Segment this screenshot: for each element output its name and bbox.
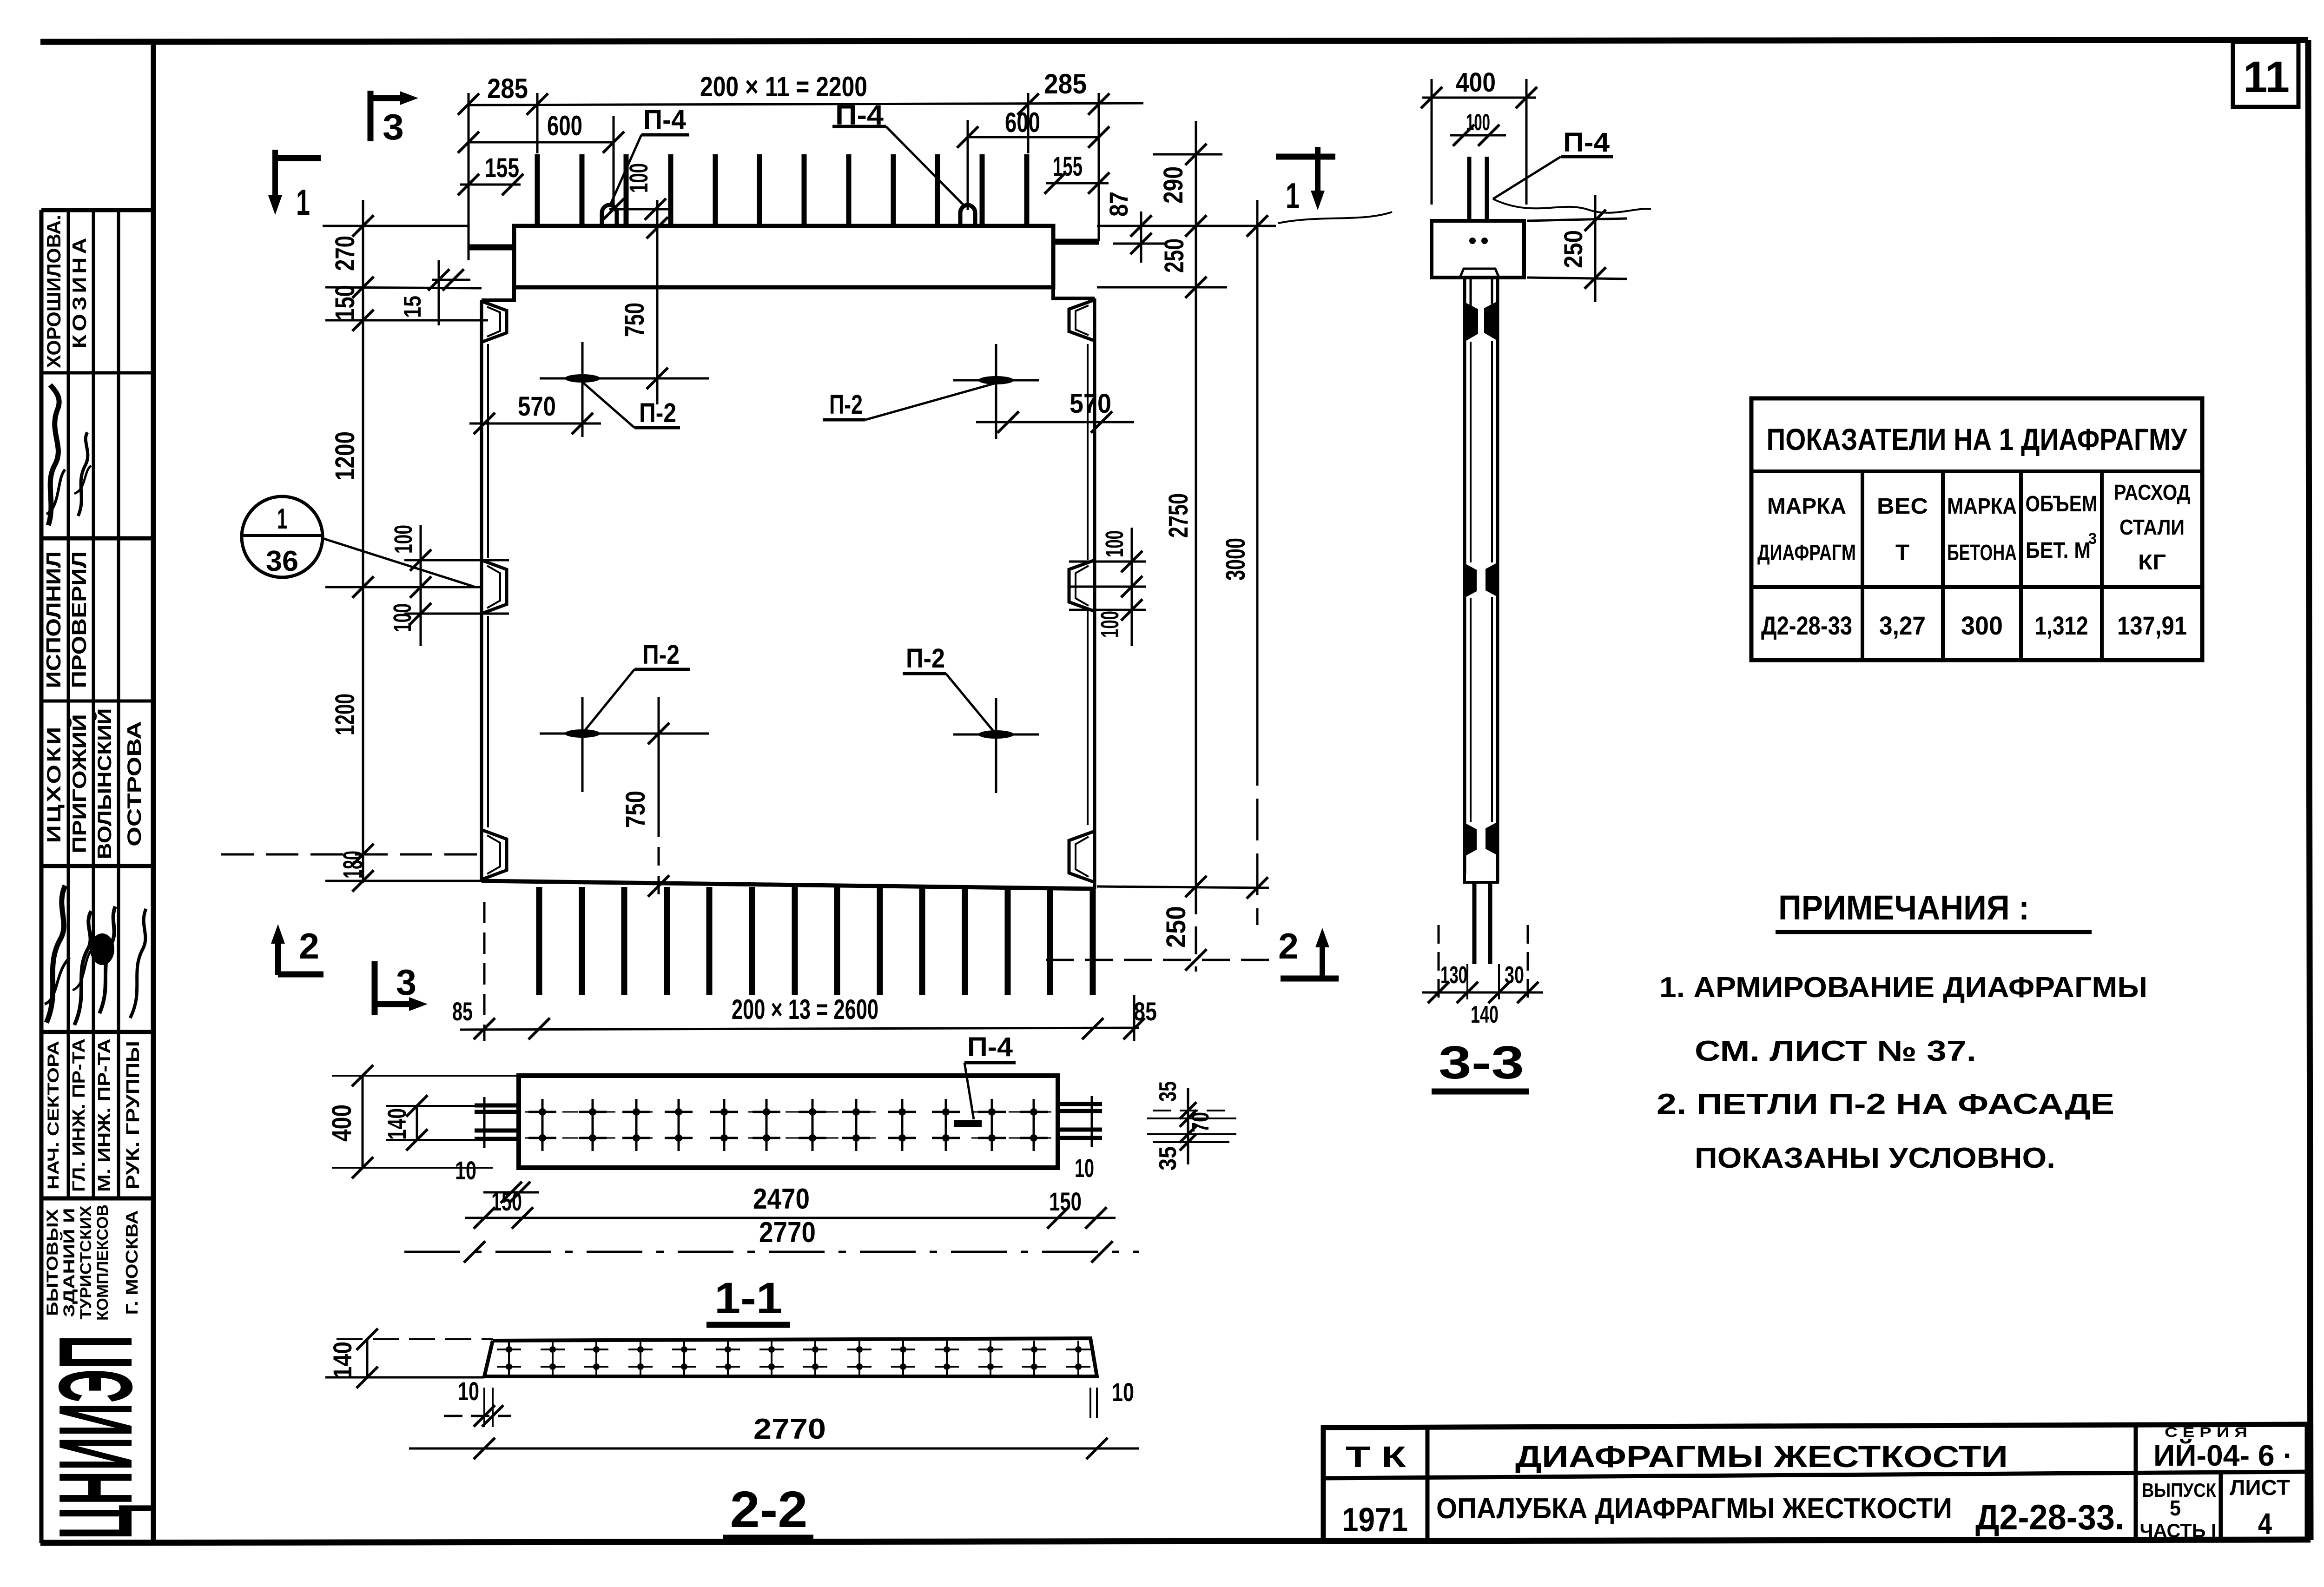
dim line top overall 285+2200+285 [469,103,1143,105]
sidebar column line 1 [67,210,70,1198]
section 1-1 body [519,1076,1058,1168]
svg-text:285: 285 [487,73,528,104]
svg-text:35: 35 [1155,1146,1182,1170]
svg-text:100: 100 [1096,611,1124,638]
svg-text:10: 10 [455,1156,476,1185]
section mark 2 right [1281,976,1339,982]
sidebar column line 2 [92,210,95,1198]
svg-text:МАРКА: МАРКА [1947,494,2017,519]
svg-text:РУК. ГРУППЫ: РУК. ГРУППЫ [123,1041,143,1190]
svg-text:570: 570 [1070,389,1111,419]
svg-text:ПРИГОЖИЙ: ПРИГОЖИЙ [68,714,90,853]
svg-text:1. АРМИРОВАНИЕ ДИАФРАГМЫ: 1. АРМИРОВАНИЕ ДИАФРАГМЫ [1659,972,2147,1004]
extension right ledge end [1098,93,1100,241]
section 2-2 body [484,1338,1097,1376]
title block col line 1 [1426,1428,1430,1542]
svg-text:ОПАЛУБКА ДИАФРАГМЫ ЖЕСТКОСТИ: ОПАЛУБКА ДИАФРАГМЫ ЖЕСТКОСТИ [1436,1493,1952,1525]
svg-text:КОЗИНА: КОЗИНА [68,235,90,349]
svg-text:3: 3 [2088,530,2097,548]
svg-text:570: 570 [518,391,556,422]
section mark 3 bottom [372,961,378,1015]
svg-text:РАСХОД: РАСХОД [2114,480,2191,504]
svg-text:КОМПЛЕКСОВ: КОМПЛЕКСОВ [94,1204,112,1321]
panel right edge wall [1093,298,1096,889]
lifting loop P-4 left [602,205,617,226]
svg-text:2750: 2750 [1163,493,1194,538]
extension line left x=1008 [468,93,470,260]
svg-text:1,312: 1,312 [2035,611,2088,640]
svg-text:Т К: Т К [1346,1440,1406,1474]
sidebar row line y=802 [41,371,153,375]
svg-text:1: 1 [296,182,310,223]
top beam outline [514,226,1053,287]
extension beam bottom level right [1097,286,1227,289]
dim 400 section 3-3 [1422,97,1536,99]
svg-text:150: 150 [330,285,360,320]
svg-text:ГЛ. ИНЖ. ПР-ТА: ГЛ. ИНЖ. ПР-ТА [69,1038,89,1192]
svg-text:ЦНИИЭП: ЦНИИЭП [37,1335,154,1540]
svg-text:П-4: П-4 [1563,127,1610,158]
beam right ledge [1053,239,1099,245]
section 3-3 wall [1463,278,1466,874]
svg-text:ДИАФРАГМ: ДИАФРАГМ [1757,541,1856,565]
svg-text:250: 250 [1161,906,1191,948]
svg-text:Д2-28-33.: Д2-28-33. [1975,1498,2124,1537]
dims 100 at right middle notch [1069,561,1146,563]
beam left ledge [469,245,514,251]
dims 130/30/140 section 3-3 [1438,925,1440,999]
svg-text:150: 150 [491,1187,522,1216]
panel left edge wall [480,300,483,881]
svg-text:П-2: П-2 [642,640,680,670]
svg-text:ИСПОЛНИЛ: ИСПОЛНИЛ [42,551,65,688]
section 3-3 wall notches bottom [1465,823,1477,856]
svg-text:5: 5 [2170,1496,2181,1520]
extension loop right vertical [967,120,969,210]
svg-text:2. ПЕТЛИ П-2 НА ФАСАДЕ: 2. ПЕТЛИ П-2 НА ФАСАДЕ [1657,1088,2114,1120]
svg-text:140: 140 [382,1108,411,1140]
panel right notch top [1069,300,1095,341]
svg-text:ОСТРОВА: ОСТРОВА [123,721,145,846]
svg-text:ПРОВЕРИЛ: ПРОВЕРИЛ [68,551,91,688]
sidebar signature blob [90,933,114,965]
dim 600 right [968,136,1099,139]
dim 200x13=2600 bottom [460,1028,1139,1030]
svg-text:П-4: П-4 [967,1032,1013,1062]
extension beam bottom level left [325,287,482,288]
dim 2770 section 1-1 [404,1251,1139,1253]
left dim chain vertical [362,200,364,883]
sidebar column line 3 [117,210,120,1198]
svg-text:36: 36 [266,545,298,577]
svg-text:НАЧ. СЕКТОРА: НАЧ. СЕКТОРА [45,1041,62,1190]
svg-text:ВЕС: ВЕС [1877,494,1928,519]
sidebar signature col4 row2 [130,909,146,1018]
drawing frame left line [151,41,156,1542]
svg-text:3: 3 [396,962,416,1003]
svg-text:1: 1 [277,503,287,535]
extension last spike [1027,93,1030,153]
svg-text:137,91: 137,91 [2117,611,2187,640]
table header row line [1751,585,2202,589]
svg-text:35: 35 [1155,1081,1182,1102]
section 1-1 right rebar stubs [1058,1102,1102,1106]
svg-text:2-2: 2-2 [730,1481,808,1538]
svg-text:140: 140 [328,1342,357,1379]
P-2 loop mark upper left [540,377,709,380]
section 3-3 block bottom notch [1460,269,1499,278]
dim 100 top (loop to axis) [609,208,671,211]
sidebar row line y=1508 [41,700,153,703]
svg-text:400: 400 [327,1104,357,1142]
svg-text:3: 3 [383,106,404,147]
svg-text:400: 400 [1456,67,1496,98]
section 3-3 bottom rebars [1472,882,1477,964]
svg-text:100: 100 [1466,109,1490,135]
extension beam top level right [1097,225,1276,227]
section mark 3 top [368,91,374,141]
extension first spike [536,93,539,153]
dim 155 left [460,184,521,186]
svg-text:270: 270 [330,236,360,271]
dim 750 upper [656,200,659,404]
dim 570 left [469,423,601,425]
svg-text:750: 750 [620,303,650,337]
dims 2470/150 section 1-1 [465,1217,1116,1219]
table header band line [1751,469,2202,473]
svg-text:100: 100 [624,163,653,193]
panel left notch top [482,301,507,342]
extension spikes bottom right [1046,959,1269,961]
dim 400 section 1-1 [362,1076,364,1168]
svg-text:87: 87 [1104,192,1133,217]
svg-text:ПОКАЗАНЫ УСЛОВНО.: ПОКАЗАНЫ УСЛОВНО. [1695,1142,2055,1174]
svg-text:10: 10 [1112,1377,1134,1407]
svg-text:130: 130 [1440,962,1467,989]
title block col line 2 [2134,1425,2138,1540]
dim 100 section 3-3 [1450,134,1506,137]
table column lines [1861,471,1864,660]
dim 140 section 1-1 [416,1106,418,1140]
svg-text:ЧАСТЬ I: ЧАСТЬ I [2140,1520,2217,1541]
svg-text:Д2-28-33: Д2-28-33 [1761,611,1852,640]
svg-text:10: 10 [458,1376,479,1406]
svg-text:С Е Р И Я: С Е Р И Я [2165,1425,2247,1440]
dim 87 [1140,212,1142,263]
svg-text:250: 250 [1558,230,1588,268]
page border bottom [40,1540,2311,1543]
svg-text:750: 750 [621,791,651,828]
dim 750 lower [658,697,660,818]
svg-text:П-4: П-4 [643,104,687,135]
svg-text:1: 1 [1286,175,1300,216]
svg-text:150: 150 [1049,1187,1082,1216]
svg-text:140: 140 [1471,1001,1499,1028]
dims 100 at left middle notch [404,559,509,562]
extension beam top level left [323,225,469,227]
extension panel left corner down [483,902,486,1041]
svg-text:2770: 2770 [759,1217,816,1249]
dim 3000 vertical [1256,200,1259,744]
page border top [40,40,2308,42]
svg-text:БЕТ. М: БЕТ. М [2026,538,2091,563]
svg-text:155: 155 [485,153,519,183]
section 3-3 wall notches top [1465,302,1478,342]
section mark 1 right [1276,154,1335,160]
svg-text:ВОЛЫНСКИЙ: ВОЛЫНСКИЙ [93,708,115,860]
section 1-1 row dash lines [525,1111,1051,1113]
svg-text:П-2: П-2 [906,643,945,674]
extension notch2 center left [325,586,482,589]
extension panel bottom right [1097,886,1269,888]
sheet number box 11 [2233,42,2298,107]
svg-text:М. ИНЖ. ПР-ТА: М. ИНЖ. ПР-ТА [95,1038,114,1192]
svg-text:ЗДАНИЙ И: ЗДАНИЙ И [60,1208,78,1317]
svg-text:ИЙ-04- 6 ·: ИЙ-04- 6 · [2153,1438,2293,1472]
svg-text:ПОКАЗАТЕЛИ НА 1 ДИАФРАГМУ: ПОКАЗАТЕЛИ НА 1 ДИАФРАГМУ [1767,422,2188,456]
svg-text:70: 70 [1187,1112,1214,1132]
extension spike top level right [1153,153,1222,156]
panel left notch middle [482,560,507,614]
section 3-3 wall notches middle [1465,563,1477,598]
sidebar top edge [41,208,153,212]
svg-text:ЛИСТ: ЛИСТ [2230,1475,2290,1500]
sidebar row line y=2220 [41,1030,153,1034]
title block outer [1323,1424,2307,1542]
svg-text:1200: 1200 [330,431,360,481]
sidebar row line y=1158 [41,536,153,541]
svg-text:КГ: КГ [2138,550,2166,574]
dim 140 section 2-2 [366,1339,369,1377]
dim 250 section 3-3 [1527,218,1627,221]
sidebar signature row1 [48,385,59,525]
panel top-left corner step [482,287,514,300]
svg-text:2470: 2470 [753,1183,810,1215]
dim chain 290/250/2750/250 vertical [1195,121,1197,886]
svg-text:600: 600 [547,110,582,141]
svg-text:300: 300 [1961,611,2003,640]
table Показатели outer [1751,398,2202,660]
section 1-1 cross marks [541,1099,544,1125]
P-2 loop mark lower right [953,734,1039,736]
svg-text:15: 15 [399,296,426,318]
svg-text:ХОРОШИЛОВА.: ХОРОШИЛОВА. [43,215,65,368]
section mark 2 bottom-left [275,944,281,975]
svg-text:ПРИМЕЧАНИЯ :: ПРИМЕЧАНИЯ : [1778,888,2029,927]
dim 2770 section 2-2 [409,1448,1139,1450]
svg-text:ИЦХОКИ: ИЦХОКИ [43,725,65,843]
svg-text:Г. МОСКВА: Г. МОСКВА [122,1210,141,1315]
section 3-3 top rebars [1467,157,1472,221]
svg-text:БЕТОНА: БЕТОНА [1947,541,2017,565]
svg-text:3-3: 3-3 [1439,1037,1524,1089]
svg-text:285: 285 [1044,68,1087,99]
svg-text:СМ. ЛИСТ № 37.: СМ. ЛИСТ № 37. [1695,1035,1976,1067]
section 2-2 cross marks [508,1341,510,1360]
dim 570 right [976,421,1134,423]
extension notch1 center left [325,319,488,322]
dims 35/70/35 right of section 1-1 [1153,1110,1229,1111]
detail mark circle 1/36 [242,496,323,577]
sidebar signature row2 [46,886,65,1023]
svg-text:1200: 1200 [330,694,360,735]
svg-text:П-2: П-2 [829,390,863,420]
svg-text:ДИАФРАГМЫ ЖЕСТКОСТИ: ДИАФРАГМЫ ЖЕСТКОСТИ [1515,1439,2008,1474]
svg-text:2: 2 [299,926,319,966]
svg-text:1-1: 1-1 [714,1274,782,1323]
svg-text:100: 100 [1101,530,1129,557]
svg-text:30: 30 [1505,962,1524,989]
dim 15 small [432,279,470,281]
svg-text:МАРКА: МАРКА [1767,494,1846,519]
section 1-1 left rebar stubs [475,1104,519,1108]
panel left notch bottom [482,830,507,879]
panel top-right corner step [1053,287,1095,298]
extension loop left vertical [613,116,615,209]
panel right notch middle [1069,560,1095,611]
svg-text:100: 100 [389,603,416,632]
extension bottom edge left [325,880,482,882]
svg-text:ТУРИСТСКИХ: ТУРИСТСКИХ [77,1205,95,1319]
sidebar outer left edge [40,210,44,1543]
svg-text:4: 4 [2258,1507,2272,1541]
section mark 1 top-left [272,150,278,195]
svg-text:11: 11 [2243,53,2290,102]
svg-text:155: 155 [1053,152,1083,182]
P-2 loop mark upper right [953,379,1039,382]
panel bottom edge [482,881,1095,889]
svg-text:СТАЛИ: СТАЛИ [2119,515,2185,539]
title block col line 3 [2219,1472,2223,1540]
extension notch3 center left [221,853,482,856]
bottom rebar spikes [536,887,542,995]
svg-text:Т: Т [1895,541,1909,565]
section 3-3 top block [1432,221,1524,278]
top rebar spikes [535,154,540,226]
section 3-3 bottom cap [1465,855,1498,882]
svg-text:200 × 11 = 2200: 200 × 11 = 2200 [700,71,867,102]
svg-text:85: 85 [452,997,473,1026]
dim 155 right [1046,182,1109,185]
sidebar row line y=1863 [41,864,153,868]
svg-text:ОБЪЕМ: ОБЪЕМ [2026,492,2098,516]
sidebar row line y=2578 [41,1197,153,1201]
svg-text:2: 2 [1278,926,1299,966]
dim 600 left [469,141,614,144]
svg-text:3,27: 3,27 [1879,611,1926,640]
svg-text:10: 10 [1075,1153,1094,1183]
page border right [2308,40,2311,1540]
svg-text:3000: 3000 [1221,538,1251,581]
panel right notch bottom [1069,831,1095,882]
svg-text:85: 85 [1134,997,1157,1026]
title block row divider [1323,1472,2307,1478]
svg-text:1971: 1971 [1342,1501,1408,1539]
svg-text:600: 600 [1005,107,1040,138]
svg-text:250: 250 [1159,238,1189,273]
extension right 85 [1133,995,1136,1041]
extension ledge level right 87 [1113,243,1167,245]
P-2 loop mark lower left [540,733,709,735]
svg-text:100: 100 [390,525,417,554]
svg-text:БЫТОВЫХ: БЫТОВЫХ [44,1209,61,1316]
lifting loop P-4 right [960,205,975,226]
svg-text:2770: 2770 [753,1413,826,1445]
svg-text:200 × 13 = 2600: 200 × 13 = 2600 [732,994,878,1025]
svg-text:290: 290 [1158,166,1188,204]
